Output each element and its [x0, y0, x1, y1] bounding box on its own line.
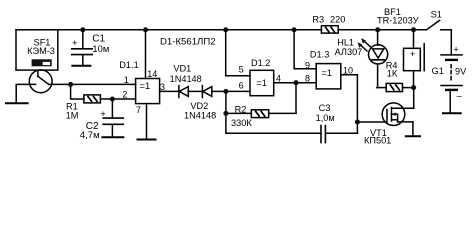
reed switch SF1: [16, 30, 58, 93]
svg-text:6: 6: [239, 81, 244, 91]
wire pin 6 feed: [226, 90, 250, 92]
svg-text:КП501: КП501: [364, 136, 391, 146]
wire VD2 to riser: [212, 90, 226, 92]
svg-text:R2: R2: [235, 104, 247, 114]
svg-text:7: 7: [136, 105, 141, 115]
svg-text:=1: =1: [321, 67, 332, 78]
svg-text:4,7м: 4,7м: [80, 130, 100, 141]
node HL1 tap: [375, 27, 380, 32]
wire pin 10 output down to gate node: [341, 75, 358, 134]
op-amp U3: XOR gate D1.3: [316, 64, 341, 89]
svg-text:9: 9: [305, 60, 310, 70]
resistor R1: [84, 95, 101, 103]
svg-text:9V: 9V: [455, 67, 467, 77]
wire riser upper: rail to pin 5: [226, 30, 250, 76]
svg-text:С3: С3: [319, 103, 331, 113]
wire pin 7 to ground: [146, 104, 148, 139]
diode VD1: [179, 86, 188, 98]
wire R2 riser: [295, 83, 297, 114]
svg-text:=1: =1: [140, 80, 151, 91]
op-amp U2: XOR gate D1.2: [250, 70, 274, 95]
resistor R2: [226, 110, 296, 118]
svg-text:2: 2: [122, 90, 127, 100]
svg-text:1,0м: 1,0м: [316, 113, 335, 123]
svg-text:=1: =1: [256, 77, 267, 88]
wire pin 8 feed: [296, 82, 316, 84]
svg-text:+: +: [410, 49, 415, 59]
svg-text:10: 10: [343, 65, 353, 75]
wire pin 9 feed: [294, 30, 316, 69]
node R2 riser junction: [293, 80, 298, 85]
node VD2 junction: [223, 89, 228, 94]
svg-text:14: 14: [147, 69, 157, 79]
buzzer BF1: [404, 30, 425, 88]
wire top rail left segment: [16, 29, 321, 31]
wire VD1 to VD2: [188, 90, 202, 92]
ground pin 7: [138, 139, 156, 141]
svg-text:+: +: [72, 38, 78, 49]
svg-text:VD1: VD1: [173, 63, 191, 73]
svg-text:1: 1: [124, 75, 129, 85]
svg-text:HL1: HL1: [337, 38, 354, 48]
node BF1 tap: [411, 27, 416, 32]
ground C2: [102, 136, 123, 138]
svg-text:220: 220: [330, 14, 345, 24]
op-amp U1: XOR gate D1.1: [136, 30, 160, 104]
svg-text:1М: 1М: [66, 111, 79, 121]
ground C1: [72, 65, 90, 67]
svg-text:5: 5: [239, 65, 244, 75]
svg-text:R3: R3: [312, 14, 324, 24]
resistor R3: [321, 26, 338, 33]
wire riser lower: VD2 node to bottom rail: [225, 91, 227, 133]
svg-text:–: –: [457, 90, 463, 100]
svg-text:D1.1: D1.1: [119, 60, 138, 70]
capacitor C1: [72, 30, 92, 65]
wire bottom rail right of C3: [326, 132, 357, 134]
wire R1 drop: [71, 84, 84, 99]
node R4 BF1 drain junction: [411, 85, 416, 90]
node D1.2 pin5 riser tap: [223, 27, 228, 32]
wire gate: [357, 121, 386, 123]
svg-text:1N4148: 1N4148: [170, 74, 202, 84]
ground VT1 source: [406, 135, 420, 137]
svg-text:S1: S1: [431, 10, 442, 20]
svg-text:+: +: [453, 45, 458, 55]
svg-text:G1: G1: [432, 66, 444, 76]
ground battery: [443, 112, 461, 114]
svg-text:1N4148: 1N4148: [184, 110, 216, 120]
svg-text:АЛ307: АЛ307: [335, 47, 363, 57]
wire pin 4 to pin 8: [274, 82, 317, 84]
resistor R4: [377, 83, 414, 91]
svg-text:D1-К561ЛП2: D1-К561ЛП2: [160, 36, 216, 47]
node pin14 tap: [143, 27, 148, 32]
LED HL1: [358, 30, 388, 88]
wire reed output to D1.1 pin 1: [49, 83, 136, 85]
node pin9 tap: [292, 27, 297, 32]
svg-text:D1.3: D1.3: [310, 50, 329, 60]
wire R1 to pin 2: [100, 98, 135, 100]
svg-text:10м: 10м: [92, 43, 109, 54]
svg-text:1К: 1К: [387, 68, 398, 78]
node R1 branch: [68, 82, 73, 87]
svg-text:8: 8: [305, 73, 310, 83]
node C1 tap: [80, 27, 85, 32]
svg-text:TR-1203У: TR-1203У: [377, 16, 419, 26]
wire bottom rail left of C3: [226, 132, 321, 134]
node R2 junction: [223, 111, 228, 116]
svg-text:330К: 330К: [231, 118, 252, 128]
capacitor C3: [321, 126, 325, 143]
wire reed left lead: [16, 84, 35, 102]
node C2 branch: [110, 96, 115, 101]
node gate junction: [355, 119, 360, 124]
ground reed: [6, 102, 28, 104]
transistor VT1: [382, 88, 414, 136]
svg-text:КЭМ-3: КЭМ-3: [27, 46, 55, 56]
wire pin 3 output: [160, 90, 179, 92]
svg-text:3: 3: [160, 82, 165, 92]
wire top rail right segment: [338, 29, 426, 31]
svg-text:VD2: VD2: [190, 101, 208, 111]
switch S1: [426, 20, 451, 30]
diode VD2: [202, 86, 211, 98]
svg-text:D1.2: D1.2: [251, 58, 270, 68]
capacitor C2: [100, 99, 123, 137]
battery G1: [441, 30, 463, 113]
